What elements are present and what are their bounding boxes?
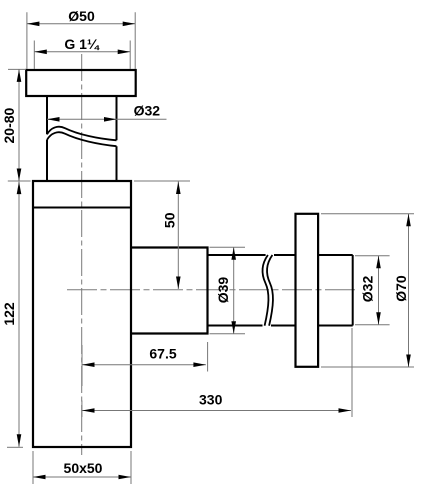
dim 50x50 arrow left — [33, 475, 46, 480]
dim G arrow right — [118, 50, 131, 55]
dim 50x50 line — [33, 476, 131, 478]
dim 50 line — [177, 182, 179, 290]
dim 67.5 line — [82, 364, 206, 366]
dim Ø70 extension bottom — [321, 366, 414, 368]
dim Ø32 top pipe line — [47, 118, 167, 120]
vertical pipe wall left — [46, 97, 48, 181]
svg-text:Ø32: Ø32 — [359, 276, 375, 303]
dim Ø32 right arrow up — [376, 256, 381, 268]
dim 50x50 extension right — [130, 451, 132, 484]
dim Ø39 arrow up — [231, 247, 236, 259]
dim 122 arrow up — [17, 182, 22, 195]
dim Ø50 line — [27, 23, 135, 25]
body (bottle 50x50) — [33, 181, 131, 447]
dim 20-80 line — [18, 69, 20, 181]
compression nut Ø39 — [131, 248, 208, 334]
dim 330 extension right — [351, 328, 353, 417]
dim 67.5 extension right — [207, 342, 209, 372]
dim 50 arrow up — [176, 182, 181, 195]
svg-text:20-80: 20-80 — [1, 107, 17, 143]
svg-text:Ø50: Ø50 — [68, 8, 95, 24]
dim G 1 1/4 line — [34, 51, 130, 53]
dim Ø70 arrow up — [406, 214, 411, 227]
svg-text:122: 122 — [1, 302, 17, 326]
dim Ø39 arrow down — [231, 321, 236, 334]
svg-text:Ø39: Ø39 — [215, 277, 231, 304]
pipe break squiggle left — [262, 255, 268, 326]
vertical pipe wall right — [116, 97, 118, 181]
dim 67.5 extension left (centerline) — [81, 345, 83, 386]
dim Ø50 extension lines — [27, 12, 135, 69]
pipe break squiggle lower — [47, 132, 117, 146]
dim Ø70 extension top — [321, 213, 414, 215]
dim 67.5 arrow left — [82, 362, 95, 367]
dim Ø32 right arrow down — [376, 312, 381, 325]
dim Ø39 extension top — [210, 246, 246, 248]
horizontal pipe end cap — [352, 255, 354, 326]
centerline vertical (body axis) — [81, 54, 83, 455]
dim Ø70 arrow down — [406, 355, 411, 368]
dim 122 extension bottom — [7, 446, 23, 448]
dim 20-80 arrow up — [17, 69, 22, 82]
svg-text:50: 50 — [162, 212, 178, 228]
horizontal pipe wall top — [208, 254, 353, 256]
dim 122 arrow down — [17, 434, 22, 447]
dim Ø50 arrow left — [27, 22, 40, 27]
svg-text:Ø70: Ø70 — [393, 275, 409, 302]
horizontal pipe wall bottom — [208, 325, 353, 327]
dim 330 arrow left — [82, 408, 95, 413]
dim 330 arrow right — [339, 408, 352, 413]
dim 122 line — [18, 182, 20, 447]
dim 50 arrow down — [176, 277, 181, 290]
dim Ø70 line — [408, 214, 410, 367]
dim G 1 1/4 extension lines — [34, 41, 130, 70]
dim Ø32 top arrow right — [104, 117, 117, 122]
pipe break squiggle upper — [47, 127, 117, 141]
dim Ø32 right line — [378, 256, 380, 325]
dim 50 extension top — [134, 180, 190, 182]
svg-text:Ø32: Ø32 — [134, 103, 161, 119]
dim 330 extension left (centerline) — [81, 401, 83, 418]
dim 20-80 arrow down — [17, 169, 22, 182]
svg-text:330: 330 — [199, 391, 223, 407]
svg-text:67.5: 67.5 — [149, 346, 176, 362]
dim 20-80 extension bottom — [8, 180, 31, 182]
dim Ø32 top arrow left — [47, 117, 60, 122]
dim Ø50 arrow right — [123, 22, 136, 27]
dim 50x50 arrow right — [119, 475, 132, 480]
dim Ø39 extension bottom — [210, 333, 246, 335]
dim G arrow left — [34, 50, 47, 55]
dim 50x50 extension left — [32, 451, 34, 484]
dim Ø39 line — [233, 247, 235, 333]
dim 330 line — [82, 410, 351, 412]
dim Ø32 right extension bottom — [355, 324, 390, 326]
wall flange Ø70 — [296, 214, 319, 367]
pipe break squiggle right — [267, 255, 273, 326]
dim Ø32 right extension top — [355, 255, 390, 257]
dim 67.5 arrow right — [193, 362, 206, 367]
top flange — [26, 70, 136, 96]
body cap joint line — [33, 207, 131, 209]
centerline horizontal (pipe axis) — [67, 289, 356, 291]
dim 20-80 extension top — [8, 68, 26, 70]
svg-text:G 1¼: G 1¼ — [64, 36, 100, 52]
svg-text:50x50: 50x50 — [64, 460, 103, 476]
